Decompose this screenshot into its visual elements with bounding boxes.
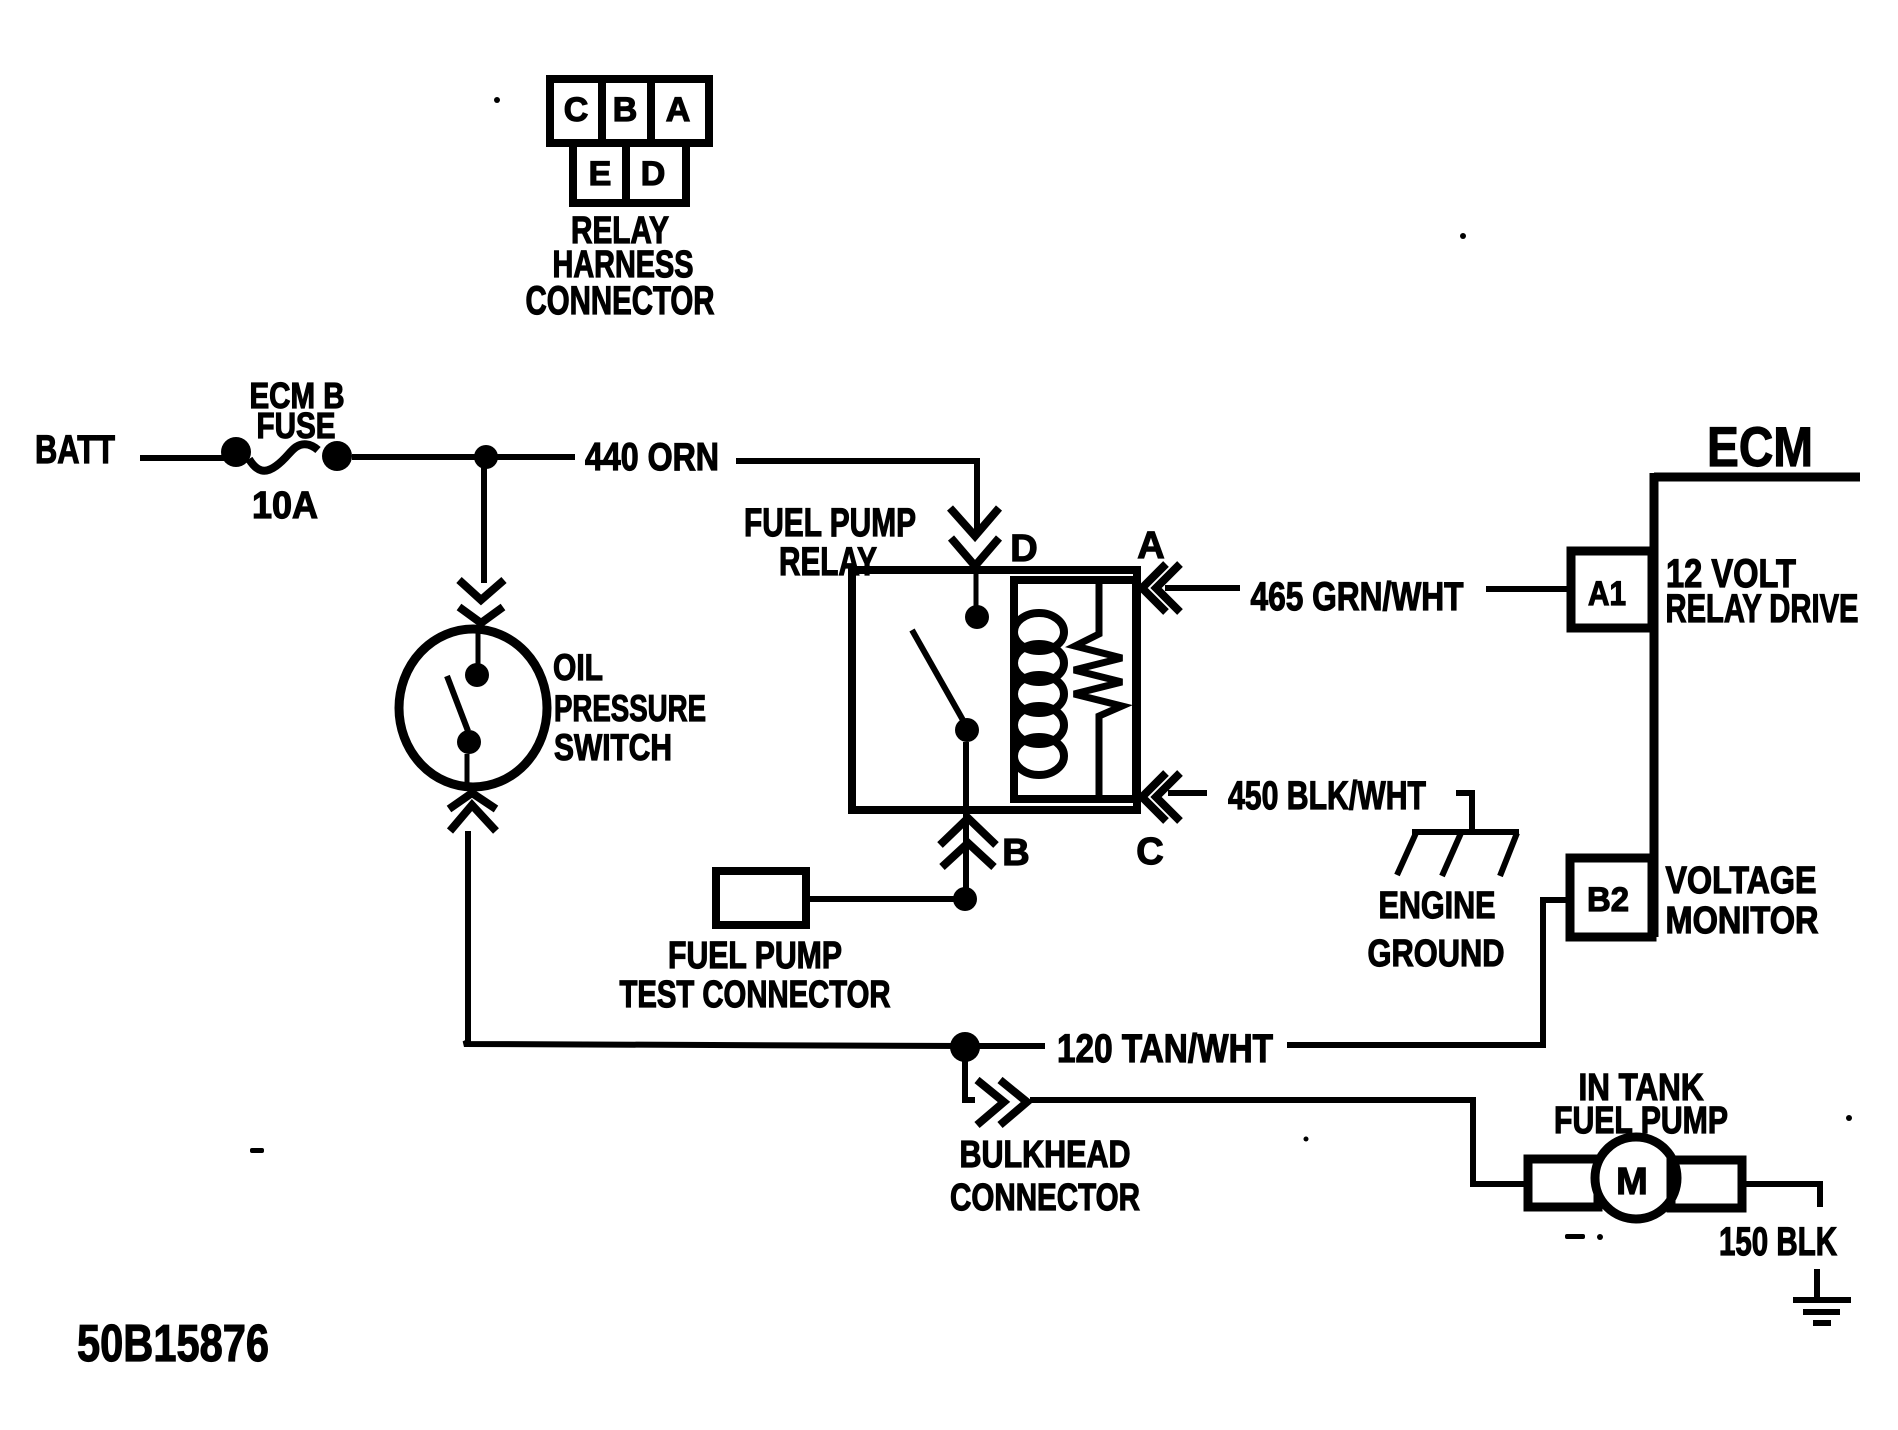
wire arrow into pin A: [1165, 585, 1240, 591]
svg-text:CONNECTOR: CONNECTOR: [526, 279, 715, 323]
wire pin D stub into relay: [974, 568, 979, 607]
wire relay switch down to pin B: [963, 742, 969, 899]
wire arrow into pin C: [1168, 790, 1207, 796]
svg-text:OIL: OIL: [553, 647, 603, 688]
oil pressure switch top contact: [465, 663, 489, 687]
relay switch fixed contact: [965, 605, 989, 629]
svg-text:RELAY DRIVE: RELAY DRIVE: [1666, 587, 1859, 631]
connector chevrons below oil pressure switch: [449, 793, 496, 831]
svg-text:FUEL PUMP: FUEL PUMP: [668, 935, 842, 977]
relay switch moving contact: [955, 718, 979, 742]
connector chevrons at relay pin A: [1142, 564, 1180, 612]
fuel pump test connector box: [716, 871, 806, 925]
svg-text:M: M: [1616, 1161, 1648, 1203]
svg-text:RELAY: RELAY: [779, 540, 877, 584]
junction node at test connector wire: [953, 887, 977, 911]
svg-text:450 BLK/WHT: 450 BLK/WHT: [1228, 774, 1426, 818]
engine ground symbol: [1397, 832, 1519, 876]
svg-text:ENGINE: ENGINE: [1379, 885, 1496, 927]
svg-text:PRESSURE: PRESSURE: [554, 688, 706, 729]
oil pressure switch bottom contact: [457, 730, 481, 754]
svg-text:465 GRN/WHT: 465 GRN/WHT: [1251, 575, 1464, 619]
oil pressure switch lever: [447, 676, 468, 731]
svg-text:50B15876: 50B15876: [77, 1315, 269, 1373]
svg-text:B2: B2: [1587, 881, 1629, 919]
svg-text:B: B: [613, 91, 638, 129]
svg-text:FUEL PUMP: FUEL PUMP: [744, 501, 916, 545]
svg-text:SWITCH: SWITCH: [554, 727, 672, 768]
svg-text:10A: 10A: [252, 485, 318, 527]
wire fuse to junction: [352, 454, 575, 460]
connector chevrons at relay pin D: [950, 508, 999, 566]
ECM terminal B2 box: [1570, 858, 1652, 937]
svg-text:FUSE: FUSE: [257, 405, 336, 446]
wire 440 ORN to relay D drop: [736, 461, 977, 534]
wire junction down to oil pressure switch: [481, 457, 487, 583]
svg-text:TEST CONNECTOR: TEST CONNECTOR: [620, 974, 891, 1016]
svg-text:BULKHEAD: BULKHEAD: [960, 1134, 1131, 1176]
svg-text:A1: A1: [1588, 575, 1626, 613]
wire 450 BLK/WHT hook to engine ground: [1456, 793, 1472, 833]
svg-text:A: A: [1137, 525, 1164, 567]
fuel pump motor M1 right terminal: [1671, 1160, 1742, 1208]
oil pressure switch bottom stub: [465, 754, 470, 786]
svg-text:C: C: [564, 91, 589, 129]
fuel pump motor M1 left terminal: [1528, 1159, 1598, 1207]
svg-text:E: E: [589, 155, 612, 193]
junction node at 440 ORN: [474, 445, 498, 469]
fuse F1 ECM B FUSE 10A: [221, 437, 251, 467]
connector chevrons above oil pressure switch: [459, 580, 504, 623]
scan speck marks: [250, 97, 1852, 1240]
wire junction to 120 TAN/WHT label: [965, 1043, 1045, 1049]
wire fuel pump to 150 BLK: [1742, 1184, 1820, 1207]
wire BATT to fuse: [140, 455, 226, 461]
fuel pump motor M1 body: [1595, 1137, 1677, 1219]
ground symbol 150 BLK: [1793, 1269, 1851, 1323]
relay switch lever: [912, 630, 968, 729]
junction node 120 TAN/WHT: [950, 1032, 980, 1062]
svg-text:BATT: BATT: [35, 428, 115, 472]
svg-text:GROUND: GROUND: [1368, 933, 1505, 975]
svg-text:C: C: [1136, 831, 1163, 873]
oil pressure switch S1 body: [399, 629, 547, 787]
svg-text:440 ORN: 440 ORN: [585, 436, 719, 479]
svg-text:CONNECTOR: CONNECTOR: [950, 1177, 1140, 1219]
relay coil assembly inner box: [1014, 580, 1136, 799]
ECM terminal A1 box: [1571, 551, 1652, 628]
svg-text:150 BLK: 150 BLK: [1719, 1220, 1837, 1264]
relay resistor R1: [1074, 584, 1122, 795]
bulkhead connector chevrons: [977, 1080, 1027, 1125]
ECM left vertical line: [1650, 473, 1659, 937]
oil pressure switch top contact stub: [476, 630, 481, 664]
connector chevrons at relay pin C: [1142, 773, 1180, 821]
svg-text:D: D: [641, 155, 666, 193]
svg-text:ECM: ECM: [1707, 415, 1813, 478]
svg-text:120 TAN/WHT: 120 TAN/WHT: [1057, 1027, 1273, 1071]
relay K1 case: [852, 570, 1137, 810]
relay coil L1: [1014, 613, 1064, 775]
wire 465 GRN/WHT to A1: [1486, 586, 1568, 592]
ECM top wire: [1654, 473, 1860, 482]
wire 120 TAN/WHT to ECM B2: [1287, 900, 1568, 1045]
connector chevrons at relay pin B: [940, 818, 996, 867]
wire oil pressure switch down and right to 120 TAN/WHT junction: [464, 831, 964, 1046]
svg-text:D: D: [1010, 528, 1037, 570]
svg-text:B: B: [1002, 832, 1029, 874]
wire test connector to relay pin B wire: [810, 896, 966, 902]
svg-text:A: A: [666, 91, 691, 129]
connector J1 relay harness connector shell: [550, 79, 709, 203]
wire junction down to bulkhead connector: [965, 1047, 975, 1100]
svg-text:VOLTAGE: VOLTAGE: [1666, 860, 1817, 902]
wire bulkhead to in tank fuel pump: [1030, 1100, 1526, 1184]
svg-text:MONITOR: MONITOR: [1666, 900, 1819, 942]
